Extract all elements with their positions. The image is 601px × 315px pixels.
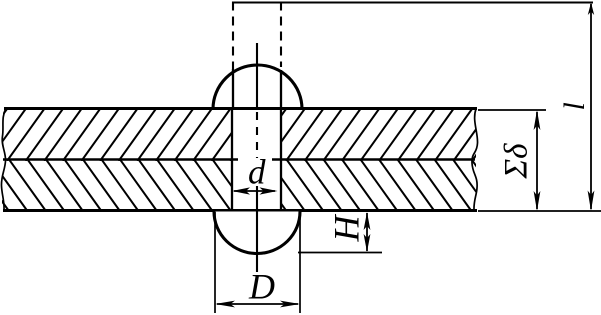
svg-text:H: H (327, 214, 367, 243)
original rivet shank right edge (dashed) (280, 2, 282, 68)
lower plate hatching (0, 158, 527, 211)
dimension l line with arrows (588, 3, 595, 212)
top extension line (original rivet end) (233, 2, 593, 4)
dimension D extension line right (299, 212, 301, 313)
rivet hole left edge (231, 110, 233, 209)
dimension Sigma-delta line with arrows (534, 110, 541, 211)
svg-text:D: D (248, 267, 275, 307)
rivet center line upper (solid) (256, 43, 258, 107)
dimension H line with arrows (364, 212, 371, 252)
upper plate hatching (0, 108, 529, 161)
rivet shank edge right inside head (280, 70, 282, 110)
bottom extension line (plate underside, shared) (478, 210, 601, 212)
rivet center line middle (dashed) (256, 112, 258, 158)
dimension D line with arrows (215, 301, 300, 308)
lower rivet head (formed head) (214, 212, 300, 254)
plate interface line left (3, 158, 238, 161)
dimension d double arrow (232, 187, 278, 194)
plate interface line right (272, 158, 475, 161)
left break (wavy) edge (1, 108, 6, 211)
right break (wavy) edge (472, 109, 478, 211)
rivet hole right edge (280, 110, 282, 209)
svg-text:Σδ: Σδ (499, 143, 535, 180)
svg-text:l: l (558, 102, 591, 110)
dimension D extension line left (214, 212, 216, 313)
rivet shank edge left inside head (232, 69, 234, 110)
rivet center line lower (solid) (256, 186, 258, 272)
dimension Sigma-delta top extension line (478, 109, 546, 111)
svg-text:d: d (248, 153, 266, 192)
dimension H extension line (298, 252, 382, 254)
original rivet shank left edge (dashed) (232, 2, 234, 71)
plate bottom surface (3, 209, 477, 212)
plate top surface (4, 107, 477, 110)
upper rivet head (dome) (213, 65, 302, 109)
